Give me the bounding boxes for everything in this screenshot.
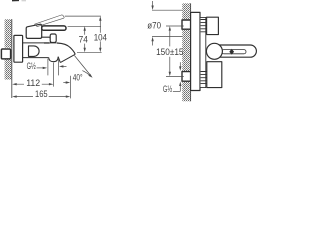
dim 74 line + arrows [84, 29, 86, 51]
wall hatch lower (left view) [5, 59, 12, 79]
flange plate (edge view) [191, 12, 200, 90]
lever rest bar [42, 26, 66, 30]
dim 104 line + arrows [99, 18, 101, 50]
wall union box [1, 49, 10, 59]
grip inner slot [222, 50, 246, 54]
svg-text:G½: G½ [163, 84, 173, 94]
svg-text:165: 165 [35, 89, 48, 99]
spout top curve [44, 43, 75, 54]
svg-text:112: 112 [26, 78, 40, 88]
G1/2 leader arrow [37, 67, 44, 69]
40 deg leader diagonal [75, 56, 91, 76]
wall hatch upper (left view) [5, 19, 12, 48]
lever raised position (thin) [35, 15, 65, 27]
G1/2 converge arrows (right) [179, 62, 181, 66]
spout end face (40 deg) [60, 54, 75, 62]
slot diamond [229, 49, 234, 55]
dim 104 extension top [65, 15, 101, 17]
upper supply connection [182, 20, 191, 29]
right converge arrow [63, 65, 67, 67]
165 extension line [70, 76, 72, 99]
outlet extension line left [47, 59, 49, 76]
upper centerline [166, 25, 184, 27]
top edge artifact [12, 0, 19, 1]
spout end lower edge [58, 57, 60, 63]
svg-text:40°: 40° [73, 73, 83, 83]
wall hatch (right view) [182, 3, 190, 101]
upper block [207, 17, 219, 34]
dim 74 extension top [68, 25, 101, 27]
dim 112 line [15, 83, 51, 85]
spout tip extension bottom [77, 51, 102, 53]
body bottom line [23, 57, 49, 59]
lower block [207, 62, 222, 88]
svg-text:74: 74 [79, 35, 88, 45]
knob circle (cartridge from above) [206, 43, 222, 59]
lower centerline [166, 75, 184, 77]
dim 150+-15 line + arrows [169, 28, 171, 74]
flange [14, 35, 23, 62]
outlet extension line right [57, 58, 59, 75]
body shoulder line [23, 42, 50, 44]
body dome (check valve housing) [29, 46, 40, 57]
lower supply connection [182, 72, 191, 82]
aerator bump [49, 57, 59, 62]
dia70 dim arrows (outside) [152, 1, 154, 6]
body column [200, 17, 206, 87]
cartridge cap [26, 24, 42, 38]
G1/2 leader (right) [173, 90, 180, 92]
dim 165 line [15, 96, 68, 98]
dia70 extension top [152, 9, 182, 11]
upper union ridges [201, 20, 207, 32]
112 extension line [53, 63, 55, 87]
svg-text:ø70: ø70 [147, 21, 161, 31]
diverter knob [50, 42, 57, 44]
svg-text:G½: G½ [27, 61, 37, 71]
lever grip (top view) [210, 45, 256, 57]
40 deg angle arc + arrows [82, 71, 90, 76]
svg-text:150±15: 150±15 [156, 47, 183, 57]
wall face line / extension line [11, 19, 13, 98]
svg-text:104: 104 [94, 32, 107, 42]
body rear deck line [42, 37, 51, 39]
dia70 extension bottom [152, 36, 182, 38]
wall face line (right) [190, 3, 192, 101]
lower union ridges [201, 72, 207, 84]
